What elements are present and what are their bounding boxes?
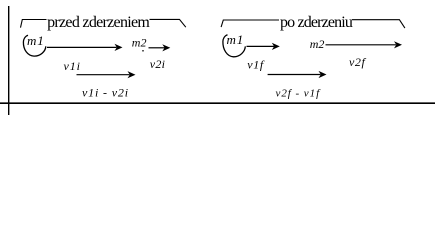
velocity arrow of m2 after — [326, 44, 397, 46]
bracket "po zderzeniu" left tick and line — [221, 20, 279, 27]
svg-text:v1f: v1f — [247, 58, 265, 72]
svg-text:v1i - v2i: v1i - v2i — [82, 86, 129, 100]
svg-text:v1i: v1i — [64, 59, 81, 73]
svg-text:v2f - v1f: v2f - v1f — [276, 87, 322, 99]
svg-text:m1: m1 — [227, 32, 245, 47]
svg-text:m2: m2 — [310, 37, 325, 51]
bracket "przed zderzeniem" right line and tick — [150, 19, 186, 27]
svg-text:po zderzeniu: po zderzeniu — [280, 14, 353, 31]
velocity arrow of m1 before — [47, 46, 117, 48]
y-axis — [8, 6, 10, 115]
x-axis — [0, 102, 435, 104]
svg-text:m1: m1 — [27, 33, 45, 48]
svg-text:przed zderzeniem: przed zderzeniem — [47, 14, 150, 31]
arrow v1i — [77, 74, 130, 76]
velocity arrow of m1 after — [247, 45, 275, 47]
svg-text:v2i: v2i — [150, 57, 166, 71]
bracket "po zderzeniu" right line and tick — [352, 20, 405, 28]
velocity arrow of m2 before — [149, 47, 165, 49]
stray dot under m2 — [142, 50, 144, 52]
svg-text:v2f: v2f — [349, 55, 367, 69]
arrow v1f — [268, 74, 321, 76]
particle m1 (before): curl — [23, 35, 45, 56]
particle m1 (after): curl — [223, 35, 245, 57]
bracket "przed zderzeniem" left tick and line — [21, 20, 47, 28]
svg-text:m2: m2 — [132, 36, 147, 50]
